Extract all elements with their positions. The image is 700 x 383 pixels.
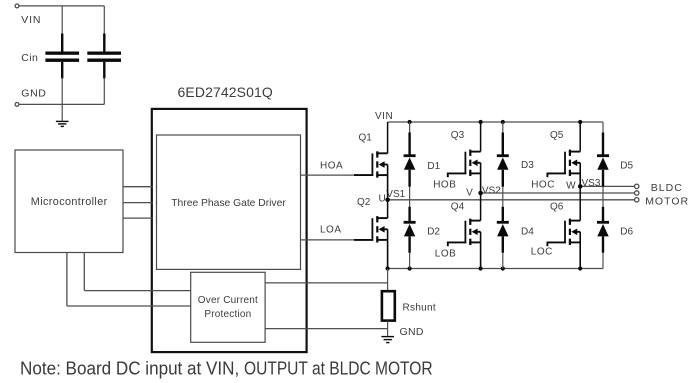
label Cin: [21, 52, 38, 64]
svg-text:D3: D3: [521, 160, 534, 171]
svg-text:Three Phase Gate Driver: Three Phase Gate Driver: [171, 198, 286, 209]
svg-text:VS1: VS1: [386, 189, 405, 200]
label LOA: [320, 224, 342, 235]
label D2: [427, 226, 440, 237]
wire OCP-shunt sense: [265, 282, 388, 284]
wire phase W: [580, 185, 634, 187]
svg-text:Q1: Q1: [359, 133, 373, 144]
svg-text:6ED2742S01Q: 6ED2742S01Q: [178, 84, 273, 100]
terminal GND (input): [15, 103, 19, 107]
node top rail-Q3: [479, 120, 483, 124]
node bottom rail-Q6: [578, 266, 582, 270]
note text: [20, 358, 433, 379]
capacitor Cin C2: [87, 6, 121, 105]
svg-text:VS3: VS3: [582, 178, 601, 189]
svg-text:Over Current: Over Current: [198, 295, 258, 306]
ground (shunt): [381, 336, 394, 343]
node bottom rail-D2: [408, 266, 412, 270]
svg-text:V: V: [466, 187, 473, 198]
node top rail-Q5: [578, 120, 582, 124]
wire phase U: [388, 199, 635, 201]
label VS1: [386, 189, 405, 200]
label VIN: [21, 14, 41, 26]
wire bottom rail: [388, 268, 603, 270]
label GND: [21, 88, 46, 100]
wire HOA: [301, 174, 355, 176]
wire LOA: [301, 239, 355, 241]
node U: [385, 198, 390, 203]
wire MCU-OCP 2: [67, 253, 191, 307]
node bottom rail-Q2: [386, 266, 390, 270]
svg-text:VIN: VIN: [375, 111, 393, 122]
label Q6: [550, 201, 564, 212]
svg-text:MOTOR: MOTOR: [645, 195, 689, 207]
svg-text:HOC: HOC: [531, 180, 555, 191]
label V: [466, 187, 473, 198]
wire rail-Rshunt: [387, 269, 389, 292]
label Q1: [359, 133, 373, 144]
terminal VIN (input): [15, 4, 19, 8]
label HOA: [320, 161, 343, 172]
node W: [578, 184, 583, 189]
wire MCU-OCP 1: [84, 253, 190, 291]
svg-text:D1: D1: [427, 161, 440, 172]
label Over Current Protection: [198, 295, 258, 320]
label VIN (bridge): [375, 111, 393, 122]
label D5: [620, 161, 633, 172]
label U: [379, 194, 386, 205]
label W: [566, 180, 576, 191]
wire phase V: [481, 192, 635, 194]
label VS2: [482, 186, 501, 197]
label Microcontroller: [31, 196, 108, 208]
svg-text:Microcontroller: Microcontroller: [31, 196, 108, 208]
diode D5 and diode D6 column: [597, 122, 609, 269]
svg-text:Cin: Cin: [21, 52, 38, 64]
label Three Phase Gate Driver: [171, 198, 286, 209]
svg-text:Rshunt: Rshunt: [403, 303, 437, 314]
label LOC: [531, 247, 553, 258]
node top rail-D1: [408, 120, 412, 124]
node bottom rail-D4: [501, 266, 505, 270]
wire VIN top: [19, 5, 104, 7]
svg-text:Q2: Q2: [357, 197, 371, 208]
wire OCP-gnd: [265, 328, 388, 330]
node V: [478, 191, 483, 196]
node top rail-D3: [501, 120, 505, 124]
block Three Phase Gate Driver: [157, 135, 301, 269]
label D6: [620, 226, 633, 237]
terminal motor U: [635, 198, 639, 202]
wire MCU-driver 3: [123, 217, 153, 219]
svg-text:LOC: LOC: [531, 247, 553, 258]
svg-text:Q6: Q6: [550, 201, 564, 212]
transistor Q1: [354, 122, 388, 200]
svg-text:BLDC: BLDC: [651, 182, 683, 194]
diode D1 and diode D2 column: [404, 122, 416, 269]
label BLDC MOTOR: [645, 182, 689, 208]
svg-text:HOB: HOB: [433, 180, 456, 191]
label HOC: [531, 180, 555, 191]
node bottom rail-Q4: [479, 266, 483, 270]
label VS3: [582, 178, 601, 189]
svg-text:Q3: Q3: [451, 130, 465, 141]
terminal motor W: [635, 184, 639, 188]
terminal motor V: [635, 191, 639, 195]
svg-text:VS2: VS2: [482, 186, 501, 197]
transistor Q5: [547, 122, 581, 186]
wire MCU-driver 2: [123, 202, 153, 204]
transistor Q6: [547, 186, 581, 268]
svg-text:U: U: [379, 194, 386, 205]
label Q2: [357, 197, 371, 208]
label D1: [427, 161, 440, 172]
svg-text:Protection: Protection: [204, 309, 251, 320]
svg-text:W: W: [566, 180, 576, 191]
svg-text:HOA: HOA: [320, 161, 343, 172]
svg-text:Q4: Q4: [451, 201, 465, 212]
block Over Current Protection: [191, 272, 265, 342]
label Q3: [451, 130, 465, 141]
ground (input): [56, 121, 69, 127]
block 6ED2742S01Q outline: [152, 109, 307, 352]
label 6ED2742S01Q: [178, 84, 273, 100]
svg-text:D4: D4: [521, 226, 534, 237]
svg-text:LOB: LOB: [435, 249, 457, 260]
label Rshunt: [403, 303, 437, 314]
label HOB: [433, 180, 456, 191]
svg-text:VIN: VIN: [21, 14, 41, 26]
svg-text:LOA: LOA: [320, 224, 342, 235]
wire VIN rail: [388, 121, 603, 123]
wire MCU-driver 1: [123, 186, 153, 188]
label D3: [521, 160, 534, 171]
svg-text:D6: D6: [620, 226, 633, 237]
svg-text:GND: GND: [21, 88, 46, 100]
label D4: [521, 226, 534, 237]
label Q4: [451, 201, 465, 212]
svg-text:GND: GND: [400, 326, 424, 338]
svg-text:Q5: Q5: [550, 130, 564, 141]
svg-text:Note: Board DC input at VIN, O: Note: Board DC input at VIN, OUTPUT at B…: [20, 358, 433, 379]
label LOB: [435, 249, 457, 260]
wire Rshunt-gnd: [387, 321, 389, 337]
diode D3 and diode D4 column: [497, 122, 509, 269]
label Q5: [550, 130, 564, 141]
transistor Q4: [447, 193, 481, 269]
block Microcontroller: [15, 150, 123, 253]
transistor Q2: [354, 200, 388, 269]
label GND (shunt): [400, 326, 424, 338]
svg-text:D5: D5: [620, 161, 633, 172]
capacitor Cin C1: [45, 6, 79, 121]
resistor Rshunt: [382, 291, 395, 320]
transistor Q3: [447, 122, 481, 193]
wire GND bottom: [19, 103, 104, 105]
svg-text:D2: D2: [427, 226, 440, 237]
